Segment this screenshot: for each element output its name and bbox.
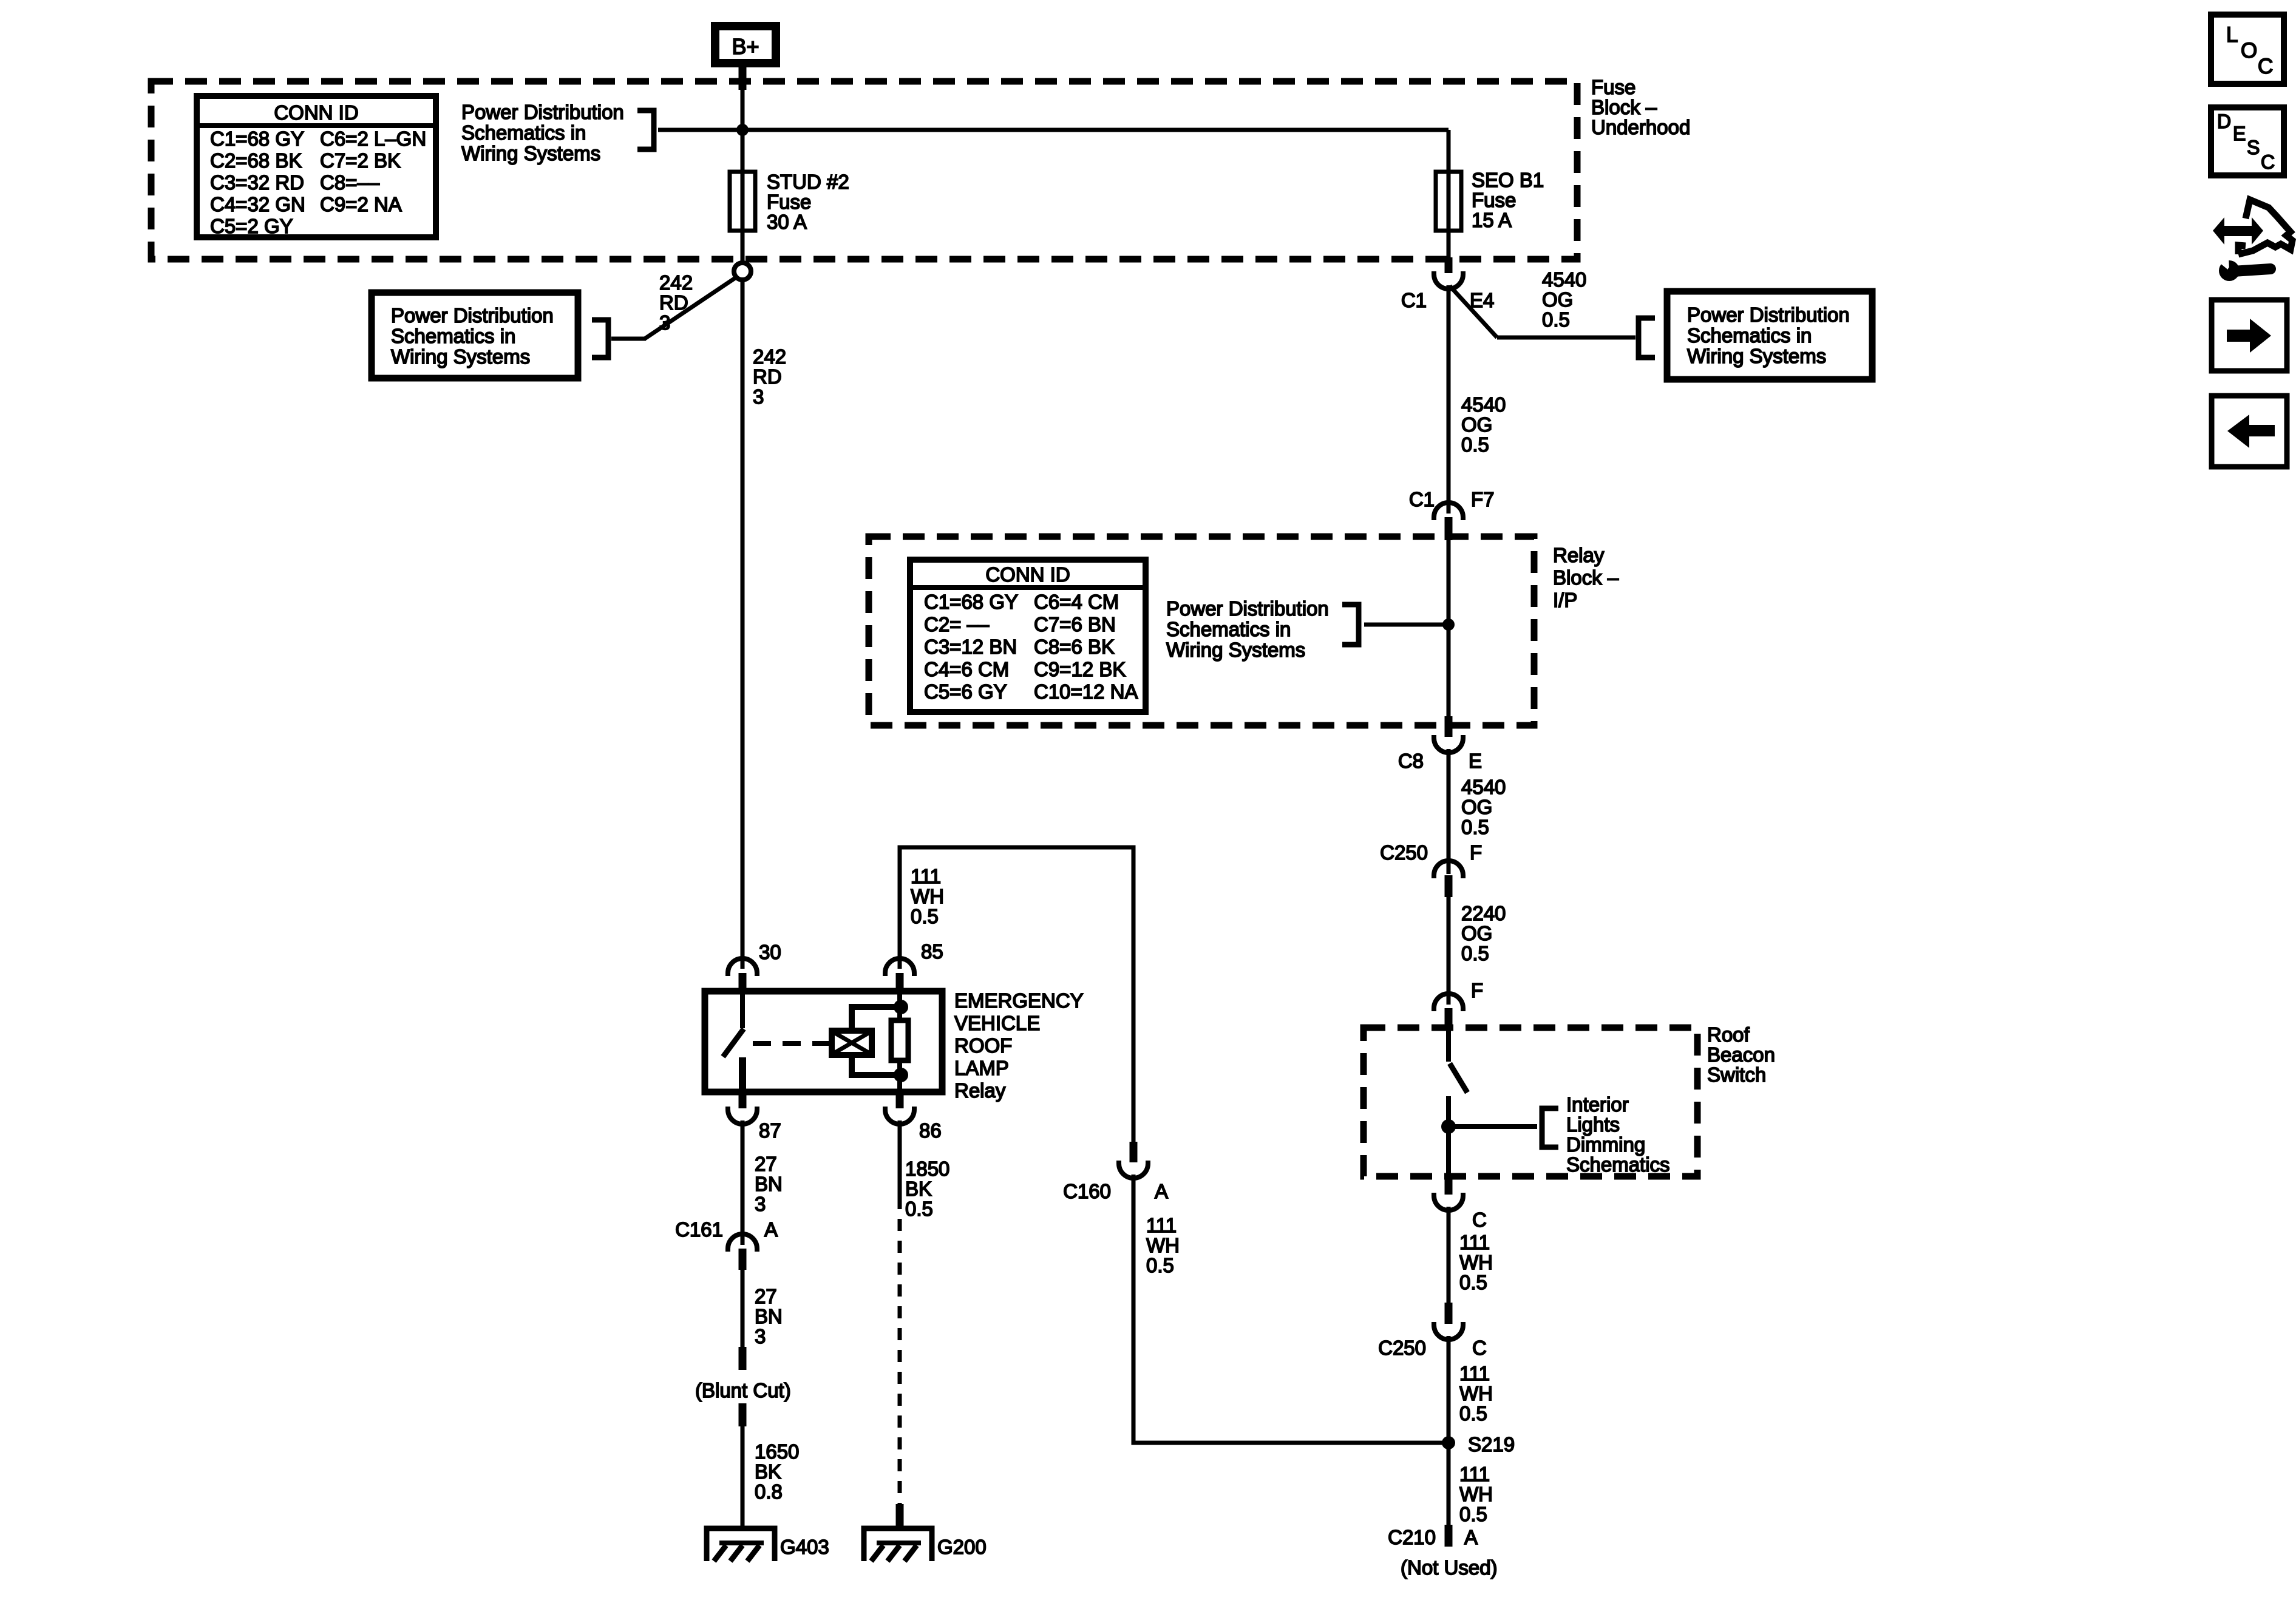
svg-text:C8: C8 <box>1398 750 1424 772</box>
svg-text:0.5: 0.5 <box>1461 816 1489 838</box>
svg-text:F: F <box>1471 979 1483 1002</box>
wire diagonal branch E4 <box>1450 286 1497 337</box>
svg-text:RD: RD <box>659 291 688 314</box>
svg-text:0.5: 0.5 <box>1459 1271 1487 1293</box>
wire diagonal branch to Power Distribution 2 <box>645 277 737 339</box>
label wire 1850 BK 0.5 <box>905 1158 949 1220</box>
svg-text:L: L <box>2226 23 2238 47</box>
svg-text:I/P: I/P <box>1553 589 1577 611</box>
label wire 242 RD 3 (upper) <box>659 271 693 334</box>
wire to Interior Lights Dimming bracket <box>1449 1124 1537 1129</box>
wire 111 WH from C160 down to S219 <box>1133 1175 1449 1443</box>
svg-text:Power Distribution: Power Distribution <box>391 304 554 327</box>
svg-text:Underhood: Underhood <box>1591 116 1690 138</box>
label wire 111 WH 0.5 (to S219) <box>1459 1362 1493 1425</box>
label wire 111 WH 0.5 (below C160) <box>1146 1214 1180 1276</box>
junction relay coil top <box>894 1000 908 1014</box>
svg-text:S: S <box>2247 137 2260 158</box>
connector C250 pin F stub <box>1445 875 1453 897</box>
bracket to Power Distribution 2 <box>592 320 608 358</box>
connector relay pin 85 <box>885 958 914 976</box>
relay switch lower contact <box>739 1057 746 1092</box>
svg-text:BN: BN <box>755 1305 783 1327</box>
wire stub from bracket 2 <box>611 337 646 341</box>
svg-text:Switch: Switch <box>1707 1063 1766 1086</box>
svg-text:Wiring Systems: Wiring Systems <box>1687 345 1826 367</box>
svg-text:OG: OG <box>1461 922 1492 944</box>
svg-text:D: D <box>2217 110 2231 132</box>
svg-text:OG: OG <box>1461 413 1492 436</box>
connector C250 pin F <box>1434 861 1463 878</box>
svg-text:3: 3 <box>755 1325 766 1347</box>
svg-text:C3=32 RD: C3=32 RD <box>210 171 304 194</box>
svg-text:15 A: 15 A <box>1472 209 1512 231</box>
svg-text:0.8: 0.8 <box>755 1480 783 1503</box>
wire horizontal feed to SEO B1 fuse <box>658 128 1449 132</box>
bracket to Interior Lights Dimming <box>1542 1108 1558 1147</box>
svg-text:Fuse: Fuse <box>767 191 811 213</box>
svg-text:Wiring Systems: Wiring Systems <box>461 142 600 164</box>
svg-text:WH: WH <box>1146 1234 1180 1256</box>
svg-text:VEHICLE: VEHICLE <box>954 1012 1040 1034</box>
label wire 2240 OG 0.5 <box>1461 902 1506 964</box>
svg-text:SEO B1: SEO B1 <box>1472 169 1544 191</box>
svg-text:BN: BN <box>755 1173 783 1195</box>
svg-text:C2= ––: C2= –– <box>924 613 990 636</box>
connector C161 pin A <box>728 1234 757 1252</box>
svg-text:Block –: Block – <box>1591 96 1657 118</box>
wire 1850 BK from pin 86 (solid part) <box>898 1120 902 1197</box>
svg-text:85: 85 <box>921 940 943 963</box>
svg-text:Relay: Relay <box>1553 544 1605 566</box>
svg-text:Power Distribution: Power Distribution <box>1166 597 1329 620</box>
svg-text:Wiring Systems: Wiring Systems <box>1166 639 1305 661</box>
connector relay pin 30 stub <box>739 973 747 994</box>
svg-text:C160: C160 <box>1063 1180 1111 1202</box>
svg-text:C250: C250 <box>1378 1337 1426 1359</box>
relay EMERGENCY VEHICLE ROOF LAMP box <box>705 991 942 1092</box>
svg-text:0.5: 0.5 <box>911 905 939 927</box>
svg-text:A: A <box>1464 1526 1478 1548</box>
wire through relay block <box>1447 539 1451 717</box>
svg-text:Schematics in: Schematics in <box>461 121 586 144</box>
connector C1 pin F7 stub <box>1445 517 1453 540</box>
connector relay pin 87 stub <box>739 1091 747 1108</box>
svg-text:G403: G403 <box>780 1536 829 1558</box>
wire 2240 OG to roof beacon switch <box>1447 897 1451 1005</box>
svg-text:C1=68 GY: C1=68 GY <box>210 127 304 150</box>
svg-text:C5=6 GY: C5=6 GY <box>924 680 1007 703</box>
wire 1850 BK dashed to G200 <box>898 1197 902 1505</box>
svg-text:C3=12 BN: C3=12 BN <box>924 636 1017 658</box>
blunt cut stub upper <box>739 1347 747 1370</box>
svg-text:C4=6 CM: C4=6 CM <box>924 658 1009 680</box>
svg-text:CONN ID: CONN ID <box>985 563 1070 586</box>
stub below B+ <box>739 67 747 90</box>
svg-text:Fuse: Fuse <box>1472 189 1516 211</box>
label wire 4540 OG 0.5 (branch) <box>1542 268 1586 331</box>
ground G403 <box>707 1528 829 1561</box>
fuse SEO B1 15 A <box>1436 172 1461 231</box>
label wire 27 BN 3 (upper) <box>755 1153 783 1215</box>
icon forward arrow box <box>2212 300 2287 371</box>
svg-text:WH: WH <box>911 885 944 907</box>
relay switch fixed contact <box>740 991 745 1028</box>
label wire 111 WH 0.5 (to C250) <box>1459 1231 1493 1293</box>
svg-text:C8=6 BK: C8=6 BK <box>1034 636 1115 658</box>
Fuse Block - Underhood dashed box <box>151 81 1577 259</box>
label wire 1650 BK 0.8 <box>755 1440 799 1503</box>
svg-text:C6=4 CM: C6=4 CM <box>1034 591 1119 613</box>
junction relay coil bottom <box>894 1068 908 1082</box>
svg-text:30 A: 30 A <box>767 211 807 233</box>
svg-text:C9=2 NA: C9=2 NA <box>320 193 402 215</box>
svg-text:0.5: 0.5 <box>1146 1254 1174 1276</box>
svg-text:RD: RD <box>753 365 782 388</box>
svg-text:E: E <box>1469 750 1482 772</box>
junction to dimming reference <box>1441 1119 1456 1134</box>
svg-text:C210: C210 <box>1388 1526 1436 1548</box>
connector C210 pin A stub <box>1445 1525 1453 1547</box>
svg-text:A: A <box>1155 1180 1168 1202</box>
svg-text:242: 242 <box>753 345 786 368</box>
svg-text:Dimming: Dimming <box>1566 1133 1645 1156</box>
svg-text:0.5: 0.5 <box>905 1198 933 1220</box>
svg-text:27: 27 <box>755 1153 777 1175</box>
svg-text:87: 87 <box>759 1119 781 1142</box>
wire main left vertical 242 RD to relay pin 30 <box>741 280 745 969</box>
relay actuation dashed link <box>753 1041 830 1046</box>
wire 1650 BK to G403 <box>741 1426 745 1526</box>
blunt cut stub lower <box>739 1403 747 1426</box>
svg-text:0.5: 0.5 <box>1459 1402 1487 1425</box>
wire switch feed inside roof beacon <box>1446 1030 1451 1062</box>
svg-text:C250: C250 <box>1380 841 1428 864</box>
svg-text:30: 30 <box>759 941 781 963</box>
CONN ID table (Relay Block - I/P) <box>910 560 1146 712</box>
label wire 27 BN 3 (lower) <box>755 1285 783 1347</box>
svg-text:Interior: Interior <box>1566 1093 1629 1116</box>
wire 111 WH to C210 via S219 <box>1447 1336 1451 1525</box>
svg-text:C: C <box>1472 1337 1487 1359</box>
box Power Distribution reference 3 <box>1667 291 1872 379</box>
svg-text:Schematics in: Schematics in <box>1687 324 1812 347</box>
wire relay coil feeds <box>852 1007 901 1075</box>
svg-text:BK: BK <box>755 1460 781 1483</box>
bracket to Power Distribution 4 <box>1342 605 1359 645</box>
svg-text:EMERGENCY: EMERGENCY <box>954 989 1084 1012</box>
label wire 111 WH 0.5 (pin 85) <box>911 865 944 927</box>
svg-text:2240: 2240 <box>1461 902 1506 924</box>
svg-text:242: 242 <box>659 271 693 294</box>
svg-text:(Not Used): (Not Used) <box>1401 1556 1498 1579</box>
relay coil (box with X) <box>832 1031 872 1055</box>
svg-text:G200: G200 <box>937 1536 987 1558</box>
svg-text:WH: WH <box>1459 1382 1493 1405</box>
node splice below STUD #2 fuse (open circle) <box>734 263 751 280</box>
svg-text:CONN ID: CONN ID <box>274 101 358 124</box>
connector C250 pin C stub <box>1445 1303 1453 1324</box>
connector relay pin 30 <box>728 958 757 976</box>
label wire 4540 OG 0.5 (to C250) <box>1461 776 1506 838</box>
icon LOC box <box>2211 15 2284 84</box>
svg-text:Roof: Roof <box>1707 1023 1750 1046</box>
connector relay pin 86 stub <box>896 1091 904 1108</box>
connector C1 pin E4 stub <box>1445 257 1453 273</box>
label Interior Lights Dimming Schematics <box>1566 1093 1670 1176</box>
svg-text:E4: E4 <box>1470 289 1494 311</box>
svg-text:1850: 1850 <box>905 1158 949 1180</box>
wire tap inside relay block <box>1364 623 1449 627</box>
Roof Beacon Switch dashed box <box>1364 1028 1697 1176</box>
svg-text:C: C <box>2261 151 2275 173</box>
svg-text:ROOF: ROOF <box>954 1034 1012 1057</box>
connector C160 pin A <box>1119 1161 1148 1178</box>
svg-text:1650: 1650 <box>755 1440 799 1463</box>
svg-text:3: 3 <box>753 385 764 408</box>
svg-text:STUD #2: STUD #2 <box>767 171 849 193</box>
svg-text:111: 111 <box>1146 1214 1177 1236</box>
svg-text:C: C <box>2258 55 2273 78</box>
svg-text:C1=68 GY: C1=68 GY <box>924 591 1018 613</box>
svg-text:E: E <box>2233 123 2246 144</box>
svg-text:C7=2 BK: C7=2 BK <box>320 149 401 172</box>
svg-text:O: O <box>2241 39 2257 63</box>
svg-text:C5=2 GY: C5=2 GY <box>210 215 293 237</box>
label Fuse Block - Underhood <box>1591 76 1690 138</box>
wire 111 WH from relay pin 85 up over to C160 <box>900 847 1133 1142</box>
svg-text:Schematics in: Schematics in <box>1166 618 1291 640</box>
label wire 242 RD 3 (lower) <box>753 345 786 408</box>
junction in relay block <box>1442 619 1455 631</box>
svg-text:0.5: 0.5 <box>1459 1503 1487 1525</box>
fuse STUD #2 30 A <box>730 172 755 231</box>
wire switch output inside roof beacon <box>1446 1096 1451 1175</box>
svg-text:C7=6 BN: C7=6 BN <box>1034 613 1116 636</box>
connector C1 pin E4 <box>1434 271 1463 289</box>
ground G200 <box>864 1528 987 1561</box>
svg-text:WH: WH <box>1459 1483 1493 1505</box>
icon DESC box <box>2211 107 2284 175</box>
connector C below roof beacon switch <box>1434 1193 1463 1210</box>
box Power Distribution reference 2 <box>372 293 578 378</box>
svg-text:S219: S219 <box>1468 1433 1515 1456</box>
bracket to Power Distribution 1 <box>637 110 654 149</box>
node B+ battery feed <box>715 26 776 63</box>
label Power Distribution reference 4 <box>1166 597 1329 661</box>
junction on B+ stem <box>736 124 749 136</box>
svg-text:Block –: Block – <box>1553 566 1619 589</box>
svg-text:C1: C1 <box>1409 488 1435 510</box>
svg-text:B+: B+ <box>732 34 759 59</box>
svg-text:0.5: 0.5 <box>1461 433 1489 456</box>
svg-text:Schematics: Schematics <box>1566 1153 1670 1176</box>
svg-text:111: 111 <box>1459 1362 1490 1385</box>
svg-text:C9=12 BK: C9=12 BK <box>1034 658 1126 680</box>
connector C stub below roof beacon switch <box>1445 1175 1453 1195</box>
label wire 4540 OG 0.5 (to F7) <box>1461 393 1506 456</box>
svg-text:C4=32 GN: C4=32 GN <box>210 193 305 215</box>
svg-text:C1: C1 <box>1401 289 1427 311</box>
svg-text:0.5: 0.5 <box>1542 308 1570 331</box>
svg-text:111: 111 <box>1459 1231 1490 1253</box>
label STUD #2 Fuse 30 A <box>767 171 849 233</box>
connector relay pin 85 stub <box>896 973 904 994</box>
bracket to Power Distribution 3 <box>1639 318 1655 358</box>
connector relay pin 86 <box>885 1107 914 1124</box>
connector F stub into roof beacon switch <box>1445 1008 1453 1030</box>
wire 111 WH to C250 <box>1447 1207 1451 1303</box>
wire horizontal to Power Distribution 3 <box>1497 336 1635 340</box>
svg-text:A: A <box>764 1218 778 1241</box>
switch blade roof beacon <box>1450 1063 1467 1093</box>
svg-text:C8=––: C8=–– <box>320 171 380 194</box>
wire 4540 OG from E4 to F7 <box>1447 285 1451 514</box>
svg-text:4540: 4540 <box>1461 776 1506 798</box>
connector C8 pin E <box>1434 735 1463 753</box>
svg-text:Lights: Lights <box>1566 1113 1620 1136</box>
svg-text:OG: OG <box>1542 288 1573 311</box>
resistor relay suppression <box>891 994 908 1092</box>
svg-text:C161: C161 <box>675 1218 723 1241</box>
connector relay pin 87 <box>728 1107 757 1124</box>
svg-text:111: 111 <box>1459 1463 1490 1485</box>
svg-text:LAMP: LAMP <box>954 1057 1009 1079</box>
wire 4540 OG to C250 <box>1447 749 1451 874</box>
connector C161 pin A stub <box>739 1249 747 1270</box>
svg-text:27: 27 <box>755 1285 777 1307</box>
svg-text:C10=12 NA: C10=12 NA <box>1034 680 1138 703</box>
label SEO B1 Fuse 15 A <box>1472 169 1544 231</box>
CONN ID table (Fuse Block - Underhood) <box>197 96 436 237</box>
label Relay Block - I/P <box>1553 544 1619 611</box>
wire B+ stem down through STUD #2 fuse <box>741 68 745 263</box>
svg-text:BK: BK <box>905 1178 932 1200</box>
svg-text:3: 3 <box>755 1193 766 1215</box>
svg-text:C6=2 L–GN: C6=2 L–GN <box>320 127 426 150</box>
connector F roof beacon switch <box>1434 994 1463 1011</box>
svg-text:86: 86 <box>919 1119 942 1142</box>
svg-text:Wiring Systems: Wiring Systems <box>391 345 530 368</box>
svg-text:Power Distribution: Power Distribution <box>1687 303 1850 326</box>
svg-text:3: 3 <box>659 311 670 334</box>
label Power Distribution reference 1 <box>461 101 624 164</box>
label EMERGENCY VEHICLE ROOF LAMP Relay <box>954 989 1084 1102</box>
connector C160 pin A stub <box>1130 1142 1138 1162</box>
svg-text:WH: WH <box>1459 1251 1493 1273</box>
wire 27 BN below C161 <box>741 1270 745 1347</box>
svg-text:4540: 4540 <box>1542 268 1586 291</box>
wire SEO B1 fuse stem <box>1447 130 1451 257</box>
svg-text:0.5: 0.5 <box>1461 942 1489 964</box>
label Roof Beacon Switch <box>1707 1023 1775 1086</box>
svg-text:Beacon: Beacon <box>1707 1043 1775 1066</box>
svg-text:OG: OG <box>1461 796 1492 818</box>
label wire 111 WH 0.5 (to C210) <box>1459 1463 1493 1525</box>
svg-text:Fuse: Fuse <box>1591 76 1635 98</box>
connector C250 pin C <box>1434 1322 1463 1340</box>
svg-text:Schematics in: Schematics in <box>391 325 515 347</box>
svg-text:111: 111 <box>911 865 941 887</box>
stub into G200 <box>896 1504 904 1526</box>
svg-text:C: C <box>1472 1209 1487 1231</box>
svg-text:C2=68 BK: C2=68 BK <box>210 149 302 172</box>
svg-text:(Blunt Cut): (Blunt Cut) <box>695 1379 791 1402</box>
icon harness routing (arrow + wrench) <box>2213 200 2292 281</box>
svg-text:Power Distribution: Power Distribution <box>461 101 624 123</box>
wire 27 BN from pin 87 to C161 <box>741 1120 745 1245</box>
svg-text:F: F <box>1470 841 1482 864</box>
icon back arrow box <box>2212 396 2287 467</box>
relay switch blade <box>723 1029 744 1057</box>
svg-text:F7: F7 <box>1471 488 1495 510</box>
splice S219 <box>1442 1436 1455 1449</box>
svg-text:4540: 4540 <box>1461 393 1506 416</box>
svg-text:Relay: Relay <box>954 1079 1006 1102</box>
connector C8 pin E stub <box>1445 716 1453 737</box>
Relay Block - I/P dashed box <box>869 537 1534 725</box>
connector C1 pin F7 <box>1434 503 1463 520</box>
